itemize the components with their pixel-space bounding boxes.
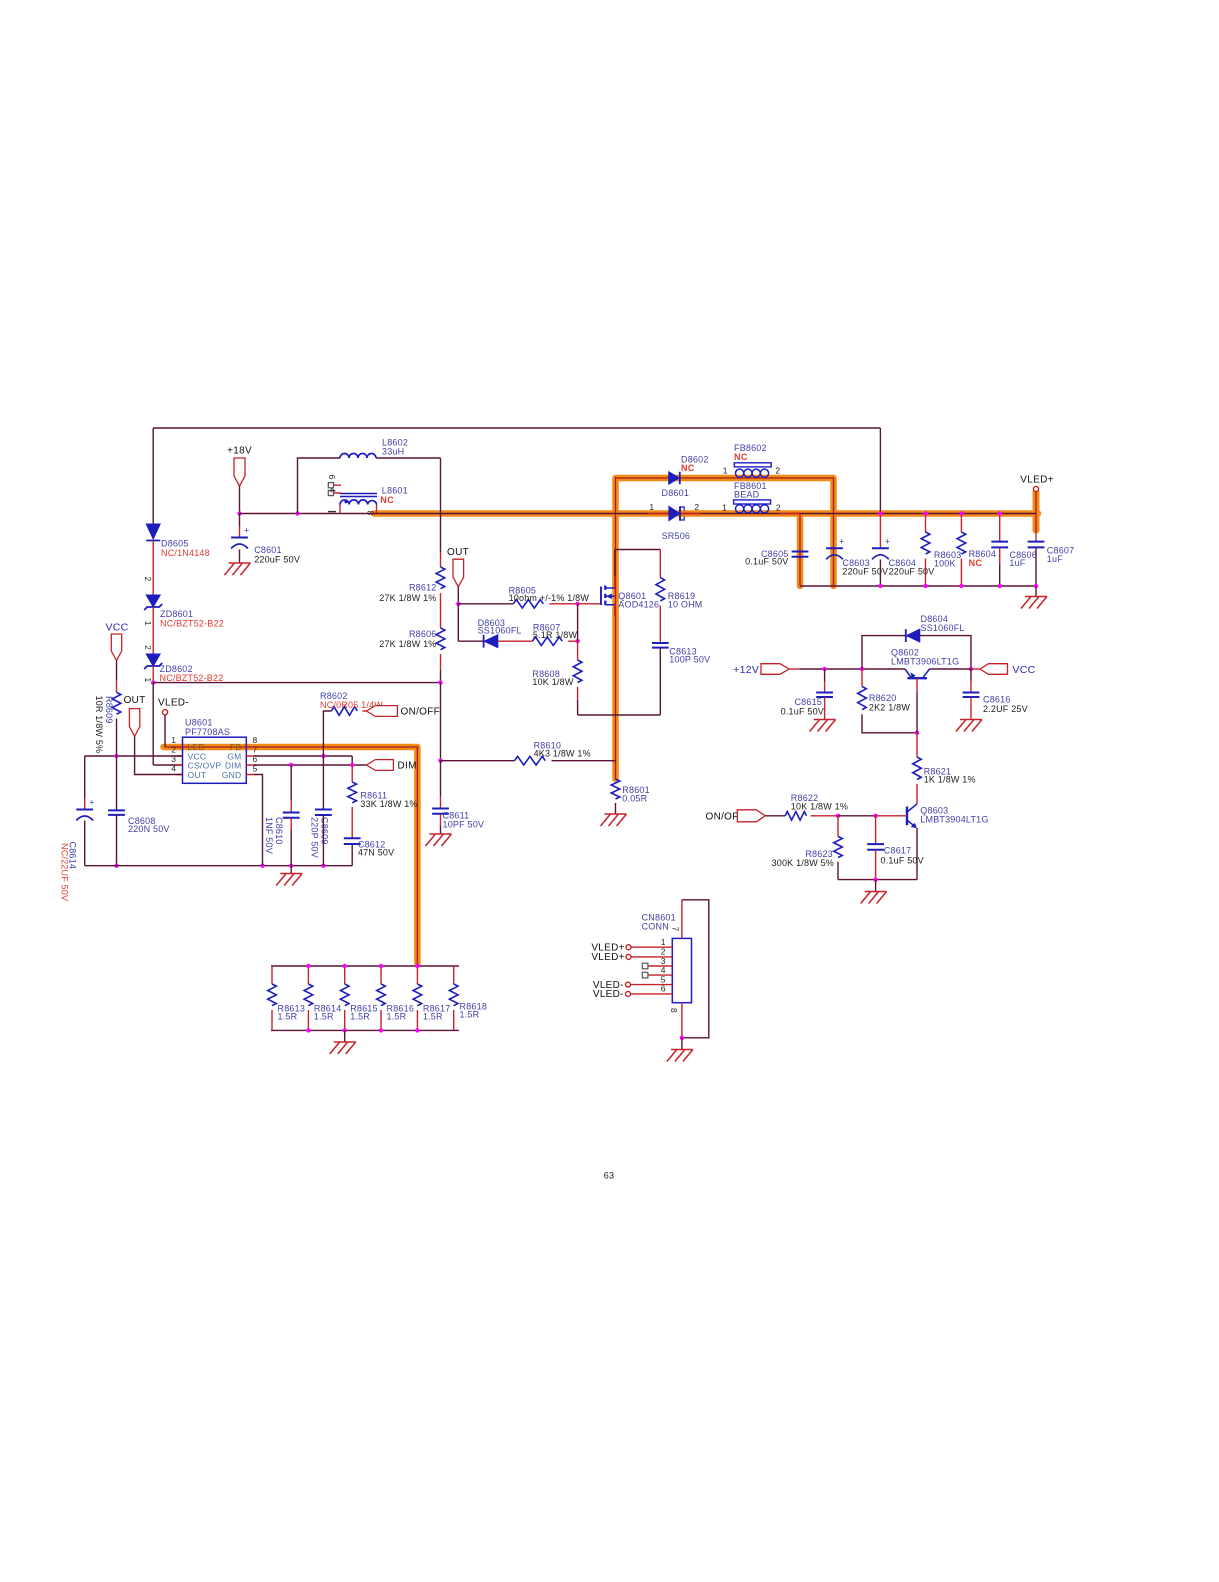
wire bus to R8603 bbox=[925, 514, 927, 533]
wire C8609 branch bbox=[322, 756, 324, 810]
junction C8610 top bbox=[289, 763, 293, 767]
svg-text:2K2 1/8W: 2K2 1/8W bbox=[869, 702, 910, 712]
wire R8610 to sense node bbox=[552, 760, 616, 762]
wire inner loop left bbox=[298, 458, 341, 514]
svg-text:C8617: C8617 bbox=[884, 846, 912, 856]
svg-text:NC/22UF 50V: NC/22UF 50V bbox=[60, 843, 70, 901]
wire drain to R8619 bbox=[616, 549, 661, 551]
resistor R8605 10ohm bbox=[513, 600, 543, 609]
diode D8603 SS1060FL bbox=[483, 635, 485, 648]
svg-text:1.5R: 1.5R bbox=[314, 1012, 334, 1022]
wire C8610 branch bbox=[290, 765, 292, 800]
resistor R8618 1.5R bbox=[449, 984, 458, 1006]
svg-text:+: + bbox=[839, 536, 844, 546]
resistor R8621 1K bbox=[913, 757, 922, 780]
svg-text:47N 50V: 47N 50V bbox=[358, 847, 394, 857]
svg-text:4: 4 bbox=[328, 488, 338, 493]
svg-text:220N 50V: 220N 50V bbox=[128, 824, 170, 834]
svg-text:+: + bbox=[244, 526, 249, 536]
wire bottom stub R8615 bbox=[344, 1010, 346, 1030]
resistor R8610 4K3 bbox=[515, 756, 546, 765]
wire C8610 to rail bbox=[290, 830, 292, 866]
wire pin7 to pin8 loop bbox=[682, 900, 709, 1038]
terminal +18V bbox=[234, 458, 245, 486]
svg-text:1: 1 bbox=[649, 502, 654, 512]
wire to C8616 bbox=[970, 669, 972, 681]
svg-text:1.5R: 1.5R bbox=[278, 1012, 298, 1022]
junction bus bbox=[878, 511, 882, 515]
junction bank bottom bbox=[415, 1028, 419, 1032]
junction VCC node bbox=[969, 667, 973, 671]
svg-text:R8609: R8609 bbox=[104, 696, 114, 724]
ground output rail bbox=[1021, 597, 1047, 609]
wire Q8603 emitter down bbox=[916, 828, 918, 880]
wire VLED+ bus bbox=[340, 513, 1036, 515]
wire R8620 to base node bbox=[862, 714, 917, 733]
svg-text:220uF 50V: 220uF 50V bbox=[889, 566, 935, 576]
svg-text:220uF 50V: 220uF 50V bbox=[254, 554, 300, 564]
wire ON/OFF to R8622 bbox=[765, 815, 785, 817]
junction R8620/D8604 bbox=[860, 667, 864, 671]
capacitor C8607 1uF bbox=[1028, 542, 1045, 548]
transformer L8601 secondary winding bbox=[340, 500, 377, 505]
resistor R8603 100K bbox=[921, 532, 930, 554]
wire GM row bbox=[254, 755, 352, 757]
resistor R8609 10R bbox=[112, 692, 121, 714]
capacitor C8614 NC/22UF 50V bbox=[76, 809, 93, 811]
wire L8601 pin1 leg bbox=[339, 505, 341, 514]
svg-text:1NF 50V: 1NF 50V bbox=[264, 817, 274, 854]
svg-text:1: 1 bbox=[723, 465, 728, 475]
svg-text:4: 4 bbox=[661, 965, 666, 975]
svg-text:2: 2 bbox=[694, 502, 699, 512]
diode D8602 (NC) bbox=[669, 472, 680, 484]
wire ZD8602 cathode to node bbox=[152, 666, 154, 683]
capacitor C8606 1uF bbox=[991, 542, 1008, 548]
wire bus to R8604 bbox=[960, 514, 962, 533]
svg-text:R8606: R8606 bbox=[409, 629, 437, 639]
svg-text:NC/1N4148: NC/1N4148 bbox=[161, 548, 210, 558]
junction bank top bbox=[306, 964, 310, 968]
wire to R8608 bbox=[577, 641, 579, 660]
wire: orange highlight VLED+ terminal drop bbox=[1033, 492, 1040, 530]
wire GND pin to rail bbox=[254, 775, 263, 866]
wire L8601 pin8 leg bbox=[376, 505, 378, 514]
mosfet Q8601 AOD4126 bbox=[600, 587, 602, 606]
svg-text:VCC: VCC bbox=[105, 622, 128, 634]
svg-text:VLED+: VLED+ bbox=[1020, 475, 1053, 486]
svg-text:2: 2 bbox=[143, 577, 153, 582]
wire C8609 to rail bbox=[322, 815, 324, 866]
wire to R8619 bbox=[659, 550, 661, 578]
ground C8601 bbox=[225, 563, 251, 575]
wire: orange highlight LED/FB row to resistor bank bbox=[164, 747, 418, 964]
wire C8611 to ground bbox=[440, 814, 442, 826]
wire D8605 cathode to ZD8601 bbox=[152, 541, 154, 596]
resistor R8601 0.05R bbox=[611, 779, 620, 799]
junction rail ground bbox=[873, 877, 877, 881]
terminal ON/OFF bbox=[366, 706, 397, 717]
wire to ground bbox=[681, 1038, 683, 1050]
junction rail bbox=[923, 584, 927, 588]
transistor Q8602 LMBT3906LT1G (PNP) bbox=[907, 677, 927, 679]
wire to R8605 bbox=[458, 603, 513, 605]
resistor R8606 27K bbox=[436, 628, 445, 650]
capacitor C8605 0.1uF 50V bbox=[792, 552, 809, 557]
svg-text:33uH: 33uH bbox=[382, 447, 404, 457]
wire rail to ground bbox=[290, 866, 292, 874]
svg-text:VCC: VCC bbox=[1012, 664, 1035, 676]
wire to C8617 bbox=[875, 816, 877, 844]
svg-text:63: 63 bbox=[604, 1171, 614, 1181]
wire to Q8603 base bbox=[876, 815, 907, 817]
svg-text:LMBT3904LT1G: LMBT3904LT1G bbox=[920, 814, 988, 824]
svg-text:1.5R: 1.5R bbox=[423, 1012, 443, 1022]
wire top stub R8616 bbox=[380, 966, 382, 984]
wire VCC row to C8614 bbox=[84, 756, 86, 798]
svg-text:220uF 50V: 220uF 50V bbox=[842, 566, 888, 576]
junction rail bbox=[1034, 584, 1038, 588]
wire C8614 to rail bbox=[84, 821, 86, 866]
wire R8602 vertical bbox=[323, 711, 331, 756]
capacitor C8601 220uF 50V bbox=[231, 537, 248, 539]
svg-text:220P 50V: 220P 50V bbox=[310, 817, 320, 858]
ground CN8601 bbox=[667, 1050, 693, 1062]
junction node CS/OVP net bbox=[151, 680, 155, 684]
wire VLED- to LED pin bbox=[164, 715, 166, 747]
svg-text:4K3 1/8W 1%: 4K3 1/8W 1% bbox=[534, 749, 591, 759]
wire OUT to R8605 row bbox=[457, 587, 459, 604]
wire output ground rail bbox=[800, 585, 1036, 587]
wire base net bbox=[838, 815, 876, 817]
wire C8606 to rail bbox=[999, 565, 1001, 586]
svg-text:0.05R: 0.05R bbox=[622, 794, 647, 804]
resistor R8623 300K bbox=[834, 836, 843, 857]
svg-text:NC: NC bbox=[681, 463, 695, 473]
svg-text:+: + bbox=[885, 536, 890, 546]
ferrite bead FB8601 BEAD bbox=[734, 500, 771, 504]
capacitor C8608 220N 50V bbox=[108, 810, 125, 815]
wire VCC row bbox=[85, 755, 183, 757]
svg-text:4: 4 bbox=[171, 763, 176, 773]
wire D8603 to R8607 bbox=[498, 640, 533, 642]
svg-text:27K 1/8W 1%: 27K 1/8W 1% bbox=[379, 593, 436, 603]
resistor R8607 5.1R bbox=[532, 637, 562, 646]
wire bus to C8606 bbox=[999, 514, 1001, 542]
wire C8612 to rail bbox=[351, 844, 353, 866]
svg-text:OUT: OUT bbox=[188, 770, 207, 780]
wire Q8602 collector to VCC node bbox=[930, 668, 972, 670]
junction pin8 ground bbox=[680, 1036, 684, 1040]
wire L8602 down to R8612 bbox=[440, 458, 442, 552]
wire: net line inside orange bus bbox=[165, 477, 1036, 966]
terminal VLED- pin6 bbox=[626, 991, 631, 996]
wire R8611 to C8612 bbox=[351, 807, 353, 838]
wire R8604 to rail bbox=[960, 559, 962, 587]
ground Q8603 rail bbox=[861, 892, 887, 904]
diode D8604 SS1060FL bbox=[905, 629, 907, 642]
capacitor C8615 0.1uF 50V bbox=[816, 693, 833, 698]
wire top stub R8618 bbox=[453, 966, 455, 984]
svg-text:VLED-: VLED- bbox=[158, 697, 189, 708]
wire C8613 to source row bbox=[659, 648, 661, 715]
wire Q8602 base down bbox=[916, 692, 918, 733]
svg-text:300K 1/8W 5%: 300K 1/8W 5% bbox=[772, 858, 834, 868]
svg-text:+: + bbox=[89, 798, 94, 808]
terminal OUT bbox=[129, 709, 139, 737]
svg-text:BEAD: BEAD bbox=[734, 490, 760, 500]
junction bank bottom bbox=[343, 1028, 347, 1032]
capacitor C8610 1NF 50V bbox=[283, 813, 300, 818]
wire drain up bbox=[614, 550, 616, 576]
svg-text:1: 1 bbox=[661, 937, 666, 947]
wire Q8603 ground rail bbox=[838, 879, 917, 881]
junction gate node bbox=[575, 602, 579, 606]
wire to C8601 bbox=[239, 514, 241, 528]
junction base node bbox=[915, 731, 919, 735]
svg-text:SS1060FL: SS1060FL bbox=[921, 623, 965, 633]
wire R8621 to Q8603 collector bbox=[916, 784, 918, 804]
capacitor C8603 220uF 50V bbox=[826, 547, 843, 549]
wire rail to ground bbox=[875, 880, 877, 892]
svg-text:1uF: 1uF bbox=[1009, 558, 1025, 568]
junction bus bbox=[998, 511, 1002, 515]
svg-text:NC: NC bbox=[380, 495, 394, 505]
resistor R8617 1.5R bbox=[413, 984, 422, 1006]
zener diode ZD8601 (NC/BZT52-B22) bbox=[146, 595, 160, 607]
junction +18V / C8601 bbox=[237, 511, 241, 515]
svg-text:10K 1/8W: 10K 1/8W bbox=[532, 677, 573, 687]
svg-text:ON/OFF: ON/OFF bbox=[401, 707, 441, 718]
wire source row bbox=[578, 714, 661, 716]
capacitor C8612 47N 50V bbox=[344, 838, 361, 844]
terminal VCC bbox=[980, 664, 1008, 675]
wire to R8623 bbox=[837, 816, 839, 837]
wire top horizontal net from D8605 anode to VLED+ column bbox=[153, 427, 880, 429]
wire rail to ground bbox=[1035, 586, 1037, 597]
svg-text:SR506: SR506 bbox=[662, 531, 691, 541]
terminal VCC bbox=[111, 634, 121, 661]
wire R8606 down bbox=[440, 654, 442, 670]
junction R8623 bbox=[836, 814, 840, 818]
wire analog ground rail bbox=[85, 865, 353, 867]
junction bank top bbox=[415, 964, 419, 968]
svg-text:D8601: D8601 bbox=[662, 488, 690, 498]
wire top stub R8615 bbox=[344, 966, 346, 984]
wire to R8610 bbox=[441, 760, 515, 762]
resistor R8615 1.5R bbox=[340, 984, 349, 1006]
junction OUT node bbox=[456, 602, 460, 606]
resistor R8604 (NC) bbox=[957, 532, 966, 554]
resistor R8620 2K2 bbox=[858, 686, 867, 709]
wire +18V to bus bbox=[239, 486, 241, 514]
zener diode ZD8602 (NC/BZT52-B22) bbox=[146, 654, 160, 666]
svg-text:VLED+: VLED+ bbox=[591, 952, 624, 963]
wire: orange highlight upper loop through D8602/FB8602 and drain column bbox=[616, 478, 834, 779]
junction R8607/R8608 bbox=[575, 639, 579, 643]
IC U8601 pin stubs bbox=[177, 747, 255, 775]
wire down to C8608 bbox=[116, 756, 118, 810]
svg-text:10PF 50V: 10PF 50V bbox=[443, 819, 485, 829]
wire R8607 to gate node bbox=[568, 640, 577, 642]
wire to U8601 pin 3 bbox=[153, 764, 182, 766]
svg-text:1.5R: 1.5R bbox=[460, 1010, 480, 1020]
svg-text:2: 2 bbox=[775, 465, 780, 475]
junction C8609 rail bbox=[321, 864, 325, 868]
svg-text:NC/BZT52-B22: NC/BZT52-B22 bbox=[160, 619, 224, 629]
svg-text:DIM: DIM bbox=[398, 761, 417, 772]
wire OUT node down to D8603 bbox=[457, 604, 459, 641]
wire DIM node to R8611 bbox=[351, 765, 353, 782]
svg-text:OUT: OUT bbox=[447, 547, 469, 558]
svg-text:D8605: D8605 bbox=[161, 539, 189, 549]
svg-text:1.5R: 1.5R bbox=[387, 1012, 407, 1022]
svg-text:C8615: C8615 bbox=[794, 697, 822, 707]
junction bus bbox=[959, 511, 963, 515]
resistor R8612 27K bbox=[436, 567, 445, 589]
resistor R8614 1.5R bbox=[304, 984, 313, 1006]
svg-text:10K 1/8W 1%: 10K 1/8W 1% bbox=[791, 801, 848, 811]
junction bank top bbox=[379, 964, 383, 968]
svg-text:0.1uF 50V: 0.1uF 50V bbox=[745, 557, 788, 567]
resistor R8602 NC/0R05 bbox=[331, 707, 357, 716]
wire pin 7 loop bbox=[681, 900, 683, 939]
wire VCC to R8609 bbox=[116, 661, 118, 681]
wire C8604 to rail bbox=[879, 560, 881, 587]
wire base node to R8621 bbox=[916, 733, 918, 757]
wire C8601 to ground bbox=[239, 550, 241, 564]
svg-text:U8601: U8601 bbox=[185, 718, 213, 728]
wire bank bottom rail bbox=[271, 1029, 459, 1031]
wire C8615 to ground bbox=[824, 697, 826, 720]
wire L8602 to R8612 column bbox=[376, 457, 441, 459]
wire R8619 to C8613 bbox=[659, 606, 661, 643]
svg-text:5.1R 1/8W: 5.1R 1/8W bbox=[533, 630, 578, 640]
svg-text:8: 8 bbox=[669, 1008, 679, 1013]
ground C8616 bbox=[956, 720, 982, 732]
unused pins CN8601 bbox=[642, 963, 648, 969]
svg-text:1K 1/8W 1%: 1K 1/8W 1% bbox=[924, 775, 976, 785]
junction R8609/C8608 bbox=[114, 754, 118, 758]
svg-text:AOD4126: AOD4126 bbox=[618, 600, 659, 610]
svg-text:R8612: R8612 bbox=[409, 583, 437, 593]
resistor R8616 1.5R bbox=[377, 984, 386, 1006]
wire R8612 to R8606 bbox=[440, 593, 442, 628]
wire top stub R8614 bbox=[307, 966, 309, 984]
resistor R8613 1.5R bbox=[268, 984, 277, 1006]
wire C8606 to rail upper bbox=[999, 547, 1001, 565]
svg-text:PF7708AS: PF7708AS bbox=[185, 727, 230, 737]
wire C8607 to rail bbox=[1035, 547, 1037, 586]
ground rail bbox=[276, 874, 302, 886]
pin 1 tick L8601 bbox=[328, 511, 336, 513]
wire +18V row to L8601 bbox=[240, 513, 341, 515]
inductor L8602 33uH bbox=[340, 454, 376, 459]
wire C8608 to rail bbox=[116, 815, 118, 866]
wire gate node to Q8601 gate bbox=[578, 603, 601, 605]
terminal +12V bbox=[761, 664, 789, 675]
wire: orange highlight C8605 branch bbox=[797, 514, 804, 587]
wire R8623 to rail bbox=[837, 862, 839, 880]
svg-text:OUT: OUT bbox=[124, 695, 146, 706]
wire gate node vertical bbox=[577, 604, 579, 641]
junction C8610 rail bbox=[289, 864, 293, 868]
svg-text:100K: 100K bbox=[934, 559, 956, 569]
svg-text:C8609: C8609 bbox=[320, 817, 330, 845]
wire R8601 to ground bbox=[615, 803, 617, 814]
capacitor C8613 100P 50V bbox=[652, 643, 669, 648]
junction bank top bbox=[343, 964, 347, 968]
terminal VLED+ pin2 bbox=[626, 954, 631, 959]
connector CN8601 body bbox=[672, 938, 691, 1002]
wire GM to DIM node bbox=[351, 756, 353, 765]
terminal VLED- bbox=[162, 710, 167, 715]
resistor R8608 10K bbox=[573, 660, 582, 683]
capacitor C8617 0.1uF 50V bbox=[867, 844, 884, 850]
wire node down to CS/OVP pin bbox=[152, 683, 154, 765]
IC U8601 PF7708AS body bbox=[183, 737, 247, 783]
svg-text:6: 6 bbox=[661, 984, 666, 994]
wire bank top rail bbox=[271, 965, 459, 967]
junction bank bottom bbox=[379, 1028, 383, 1032]
wire +12V stub bbox=[789, 668, 800, 670]
wire to D8604 bbox=[862, 636, 905, 669]
svg-text:1uF: 1uF bbox=[1047, 554, 1063, 564]
wire down to C8611 bbox=[440, 761, 442, 796]
terminal VLED- pin5 bbox=[626, 982, 631, 987]
svg-text:33K 1/8W 1%: 33K 1/8W 1% bbox=[360, 799, 417, 809]
wire to C8615 bbox=[824, 669, 826, 681]
svg-text:0.1uF 50V: 0.1uF 50V bbox=[781, 707, 824, 717]
svg-text:2: 2 bbox=[143, 645, 153, 650]
svg-text:0.1uF 50V: 0.1uF 50V bbox=[881, 856, 924, 866]
wire C8617 to rail bbox=[875, 850, 877, 880]
connector CN8601 left pin stubs bbox=[631, 947, 673, 994]
junction C8617 bbox=[873, 814, 877, 818]
transformer L8601 unused primary pins bbox=[328, 483, 333, 488]
wire bottom stub R8617 bbox=[416, 1010, 418, 1030]
resistor R8622 10K bbox=[785, 812, 806, 821]
svg-text:NC: NC bbox=[734, 452, 748, 462]
svg-text:27K 1/8W 1%: 27K 1/8W 1% bbox=[379, 639, 436, 649]
junction GND pin rail bbox=[260, 864, 264, 868]
junction C8608 rail bbox=[114, 864, 118, 868]
diode D8605 (NC/1N4148) bbox=[146, 524, 160, 539]
svg-text:C8610: C8610 bbox=[274, 817, 284, 845]
wire R8603 to rail bbox=[925, 559, 927, 587]
resistor R8611 33K bbox=[348, 782, 357, 803]
svg-text:10R 1/8W 5%: 10R 1/8W 5% bbox=[94, 696, 104, 754]
wire R8605 to gate node bbox=[549, 603, 577, 605]
ground C8615 bbox=[810, 720, 836, 732]
svg-text:6: 6 bbox=[327, 475, 337, 480]
diode D8601 SR506 bbox=[669, 506, 680, 520]
wire bottom stub R8614 bbox=[307, 1010, 309, 1030]
transistor Q8603 LMBT3904LT1G (NPN) bbox=[906, 807, 908, 826]
wire down to R8610 row bbox=[440, 683, 442, 761]
svg-text:NC: NC bbox=[969, 558, 983, 568]
junction rail bbox=[998, 584, 1002, 588]
transformer L8601 (NC) core bbox=[340, 494, 377, 497]
svg-text:VLED-: VLED- bbox=[593, 989, 624, 1000]
junction R8606 / CS net bbox=[438, 680, 442, 684]
svg-text:7: 7 bbox=[671, 927, 681, 932]
svg-text:GND: GND bbox=[222, 770, 242, 780]
wire pin 8 stub bbox=[681, 1003, 683, 1038]
capacitor C8604 220uF 50V bbox=[872, 547, 889, 549]
junction bank bottom bbox=[306, 1028, 310, 1032]
wire OUT terminal to pin 4 bbox=[135, 736, 183, 774]
